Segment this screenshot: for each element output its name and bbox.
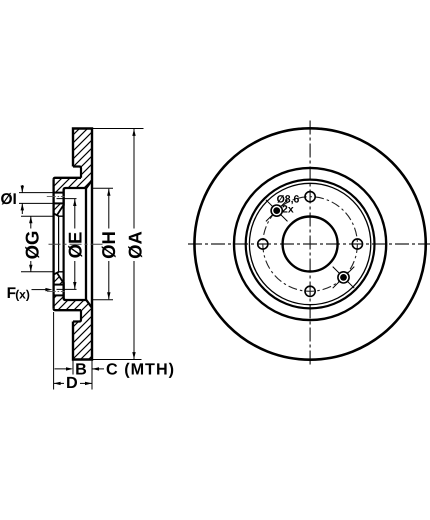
- pin hole upper-left cross ticks: [266, 200, 288, 222]
- svg-text:(x): (x): [15, 288, 30, 302]
- svg-text:ØE: ØE: [64, 232, 85, 259]
- svg-text:ØI: ØI: [1, 191, 17, 208]
- bore chamfer lower: [54, 272, 64, 283]
- dimension C arrow: [92, 368, 104, 370]
- hat inner wall: [62, 190, 64, 299]
- bore edge upper: [59, 215, 64, 217]
- vertical center line: [309, 121, 311, 368]
- bolt hole axis upper: [47, 196, 65, 198]
- bolt hole lower: upper edge: [53, 284, 64, 286]
- bolt hole upper: flange underside: [53, 192, 64, 194]
- hatched friction-ring upper block: [54, 129, 92, 193]
- pin hole lower-right: [338, 272, 349, 283]
- bore chamfer upper: [54, 205, 64, 216]
- hat flange top edge: [54, 178, 81, 180]
- dimension ØE extension lines: [57, 199, 77, 290]
- svg-text:C (MTH): C (MTH): [106, 361, 175, 379]
- dimension ØI extension lines: [19, 193, 53, 204]
- hatched hub wall upper chamfer block: [54, 203, 64, 214]
- dimension D extension line: [53, 312, 55, 390]
- hub outer circle: [246, 180, 375, 309]
- dimension ØG line and arrows: [30, 216, 32, 272]
- dimension D line and arrows: [54, 382, 92, 384]
- bolt hole axis lower: [47, 290, 65, 292]
- horizontal center line: [188, 243, 430, 245]
- pin hole upper-left center dot: [273, 207, 280, 214]
- dimension B arrows: [55, 368, 72, 370]
- pin hole lower-right cross ticks: [333, 267, 355, 289]
- mounting face: [52, 180, 54, 309]
- dimension ØA extension lines: [92, 129, 144, 360]
- bolt circle (dash-dot): [263, 197, 358, 292]
- relief groove upper: [73, 167, 81, 178]
- friction surface inner circle: [234, 168, 386, 320]
- hat cavity outline: [64, 181, 92, 308]
- bore chamfer edge line: [58, 216, 60, 272]
- bolt hole lower: flange underside: [53, 294, 64, 296]
- hat flange bottom edge: [54, 308, 81, 310]
- svg-text:D: D: [66, 374, 78, 392]
- svg-text:ØH: ØH: [98, 231, 119, 259]
- bolt hole top: [305, 192, 315, 202]
- svg-text:ØG: ØG: [21, 231, 42, 260]
- F(x) leader arrow: [32, 289, 48, 291]
- hub inner circle: [249, 183, 370, 304]
- pin hole upper-left: [271, 205, 282, 216]
- bore edge lower: [59, 271, 64, 273]
- relief groove lower: [73, 310, 81, 321]
- bolt hole left: [258, 239, 268, 249]
- hatched friction-ring lower block: [54, 295, 92, 359]
- bolt hole right: [352, 239, 362, 249]
- section axis line: [49, 243, 104, 245]
- dimension ØH extension lines: [93, 188, 113, 299]
- center bore circle: [283, 217, 338, 272]
- hatched hub wall lower chamfer block: [54, 273, 64, 284]
- dimension ØA line and arrows: [133, 129, 135, 359]
- dimension ØI arrows: [21, 185, 23, 214]
- pin hole lower-right center dot: [340, 274, 347, 281]
- dimension ØE line and arrows: [74, 199, 76, 289]
- dimension ØH line and arrows: [108, 189, 110, 299]
- dimension ØG extension lines: [21, 216, 53, 272]
- dimension B extension lines: [73, 360, 92, 390]
- bolt hole bottom: [305, 286, 315, 296]
- svg-text:2x: 2x: [282, 203, 294, 215]
- friction ring outline: [73, 129, 92, 360]
- svg-text:ØA: ØA: [124, 231, 145, 259]
- outer circle ØA: [194, 128, 425, 359]
- bolt hole upper: lower edge: [53, 202, 64, 204]
